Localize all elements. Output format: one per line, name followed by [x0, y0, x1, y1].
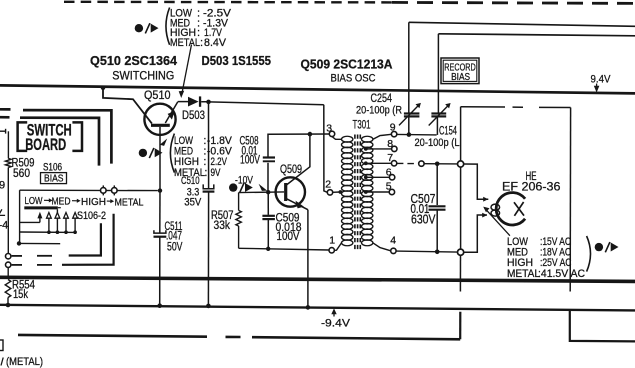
wire C510 top: [208, 102, 210, 188]
connector on pin7 wire: [419, 161, 424, 166]
resistor R509: [5, 158, 11, 167]
transistor Q510: [144, 104, 175, 135]
head adjust arrow: [485, 208, 510, 236]
svg-text:15k: 15k: [13, 289, 28, 301]
wire METAL route dashes: [12, 264, 22, 266]
Q510 base bar: [151, 124, 170, 127]
capacitor C510: [203, 184, 214, 188]
svg-text:D503: D503: [182, 108, 205, 122]
switch wiper feed: [19, 190, 21, 243]
measurement symbol Q510 base: [139, 149, 147, 157]
svg-text::: :: [200, 37, 203, 49]
wire left vertical: [7, 131, 9, 158]
connector on switch wire b: [112, 188, 118, 194]
arrow med-high: [72, 200, 77, 202]
wire pin7 to head block: [424, 163, 458, 165]
head block left edge: [460, 107, 462, 161]
wire contact bus lower: [20, 242, 61, 244]
wire Q510 collector: [103, 88, 152, 124]
switch wiper contact link: [56, 209, 58, 213]
wire C508 top: [267, 163, 269, 192]
svg-text:HIGH: HIGH: [81, 196, 106, 208]
arrow high-metal: [107, 200, 111, 202]
svg-text:C254: C254: [371, 93, 393, 105]
svg-text:METAL: METAL: [174, 167, 205, 179]
arrow list1 to Q510 base: [182, 45, 191, 92]
junction C254 branch: [407, 132, 412, 137]
wire R509 to connectors: [7, 168, 9, 254]
bus B+ (thick): [0, 277, 635, 281]
voltage list erase head: [587, 236, 591, 272]
junction D503 / C510: [206, 100, 211, 105]
svg-text:D503 1S1555: D503 1S1555: [202, 53, 272, 68]
capacitor C507: [436, 164, 438, 205]
svg-text:BIAS OSC: BIAS OSC: [331, 73, 376, 85]
wire D503 cathode to T301 pin2 drop: [209, 102, 324, 105]
T301 core: [354, 135, 356, 250]
wire Q509 emitter to -9.4V bus: [307, 210, 309, 308]
svg-text:S106-2: S106-2: [77, 210, 106, 222]
switch contact METAL: [73, 213, 78, 219]
transistor Q509: [276, 177, 305, 206]
svg-text:BOARD: BOARD: [25, 135, 66, 154]
svg-text:(METAL): (METAL): [6, 356, 43, 368]
connector head block upper: [458, 161, 464, 167]
svg-text:33k: 33k: [214, 220, 231, 232]
T301 primary winding: [342, 136, 353, 142]
wire HIGH route dashes: [12, 255, 22, 257]
svg-text:BIAS: BIAS: [451, 71, 470, 83]
wire -9.4V bus to bottom edge left: [459, 312, 461, 340]
svg-text:4: 4: [390, 234, 396, 246]
svg-text:METAL: METAL: [115, 196, 144, 208]
wire head lower lead: [464, 215, 487, 252]
junction Q509 emitter / -9.4V bus: [306, 305, 311, 310]
junction Q509 collector / pin3 wire: [308, 132, 313, 137]
wire C508 to T301 pin3: [268, 134, 329, 157]
svg-text:C154: C154: [439, 125, 457, 137]
label RECORD BIAS box: [441, 58, 479, 84]
switch wiper bar: [24, 206, 58, 209]
svg-text::41.5V AC: :41.5V AC: [538, 268, 585, 280]
diode D503: [178, 101, 188, 103]
resistor R507: [238, 193, 240, 211]
wire C254 to R feed: [408, 22, 410, 112]
head block right edge: [569, 108, 571, 292]
svg-text:50V: 50V: [167, 241, 183, 253]
svg-text:100V: 100V: [277, 231, 300, 243]
connector head block lower: [458, 249, 464, 255]
connector on switch wire a: [101, 188, 107, 194]
wire pin2 drop from D503 wire: [324, 105, 328, 193]
switch board outline outer: [0, 108, 11, 111]
T301 secondary winding: [362, 136, 373, 142]
svg-text:-4: -4: [0, 219, 8, 231]
resistor R554: [5, 280, 11, 298]
wire pin7 dashed link: [397, 162, 416, 164]
junction Q510 base / switch wire: [158, 188, 162, 192]
pointer to -10V node: [259, 184, 268, 191]
connector pin lower left: [6, 262, 11, 267]
arrow low-med: [44, 199, 49, 201]
svg-text:T301: T301: [353, 119, 371, 131]
svg-text:-9.4V: -9.4V: [321, 317, 351, 329]
wire C510 bottom: [207, 192, 209, 306]
junction contact bus corner: [17, 241, 21, 245]
wire pin4 to head block: [396, 251, 458, 252]
svg-text:1: 1: [329, 234, 335, 246]
label SWITCH BOARD: [18, 122, 28, 150]
trimmer capacitor C254: [404, 112, 420, 114]
connector fragment bottom left: [0, 340, 3, 351]
capacitor C508: [263, 156, 275, 158]
measurement symbol (rec/play) top: [135, 24, 143, 32]
wire switch contacts bus: [20, 231, 76, 233]
junction C509 / Q509 base: [266, 190, 270, 194]
wire main supply rail (9.4V): [0, 85, 635, 93]
bus board edge (bottom): [18, 335, 207, 337]
measurement symbol -10V: [229, 183, 237, 191]
wire switch common to Q510 base: [20, 189, 158, 191]
svg-text:METAL: METAL: [507, 268, 540, 280]
Q509 emitter: [286, 198, 308, 209]
svg-text:-10V: -10V: [235, 174, 254, 186]
switch board outline inner: [0, 116, 10, 119]
wire pin9 to trimmers: [397, 133, 437, 136]
svg-text:20-100p (L: 20-100p (L: [415, 137, 460, 149]
svg-text:METAL: METAL: [170, 37, 200, 49]
svg-text:Q509 2SC1213A: Q509 2SC1213A: [301, 56, 394, 71]
svg-text:9.4V: 9.4V: [591, 74, 612, 86]
connector pin upper left: [6, 254, 11, 259]
switch contact LOW: [47, 213, 52, 219]
svg-text:S106: S106: [43, 161, 62, 173]
svg-text:35V: 35V: [184, 197, 202, 209]
arrow 9.4V to rail: [596, 84, 598, 90]
bus -9.4V: [0, 305, 635, 311]
svg-text:630V: 630V: [411, 213, 436, 227]
junction C509 / bottom wire: [266, 247, 270, 251]
wire head upper lead: [464, 164, 489, 199]
junction C510 / -9.4V bus: [206, 304, 211, 309]
junction C507 top: [435, 162, 440, 167]
junction C511 line / -9.4V bus: [157, 303, 162, 308]
svg-text:SWITCHING: SWITCHING: [112, 71, 174, 83]
arrow -9.4V to bus: [333, 312, 335, 317]
junction R554 / -9.4V bus: [6, 303, 11, 308]
switch contact MED: [55, 213, 60, 219]
svg-text:2: 2: [325, 178, 331, 190]
junction C507 bottom: [435, 250, 440, 255]
svg-text:MED: MED: [52, 195, 71, 207]
wire -9.4V bus to bottom edge right: [570, 311, 635, 342]
erase head HE coil: [491, 204, 500, 210]
svg-text:8.4V: 8.4V: [204, 37, 227, 49]
voltage list Q510 base: [170, 134, 174, 173]
switch contact HIGH: [64, 213, 69, 219]
Q509 base bar: [284, 183, 287, 201]
wire connectors to bus: [7, 268, 9, 278]
wire HIGH route corner: [69, 223, 101, 255]
wire Q509 base: [239, 191, 284, 194]
svg-text:Q510: Q510: [144, 88, 171, 102]
wire METAL route corner: [62, 214, 114, 265]
svg-text:9: 9: [0, 179, 5, 191]
svg-text::: :: [204, 167, 207, 179]
trimmer capacitor C154: [431, 112, 446, 114]
wire R507/C509 bottom to T301 pin1: [239, 248, 329, 250]
wire record-bias feed (L channel): [438, 34, 635, 36]
Q509 collector: [286, 134, 310, 185]
svg-text:Q510 2SC1364: Q510 2SC1364: [90, 53, 178, 68]
svg-text:LOW: LOW: [25, 195, 43, 207]
svg-text:560: 560: [13, 168, 30, 180]
Q510 emitter: [165, 102, 178, 123]
svg-text:9V: 9V: [211, 167, 221, 179]
wire C154 to L feed: [437, 34, 439, 113]
capacitor C509: [267, 192, 269, 215]
head block top edge: [461, 106, 505, 108]
junction rail / Q510 collector: [101, 86, 106, 91]
Q510 base lead: [159, 127, 161, 191]
dashed board border (top): [64, 1, 392, 4]
measurement symbol head: [595, 243, 603, 251]
svg-text:Q509: Q509: [280, 162, 302, 176]
wire record-bias feed (R channel): [409, 22, 635, 26]
svg-text:BIAS: BIAS: [44, 173, 64, 184]
svg-text:20-100p (R: 20-100p (R: [356, 104, 402, 116]
pointer to Q510 base lead: [160, 139, 168, 146]
erase head HE: [496, 193, 525, 225]
voltage list Q510 switching node: [166, 8, 170, 45]
label BIAS box: [41, 173, 67, 184]
svg-text:100V: 100V: [240, 154, 260, 166]
capacitor C511: [159, 191, 161, 233]
wire left edge stub: [0, 130, 6, 132]
